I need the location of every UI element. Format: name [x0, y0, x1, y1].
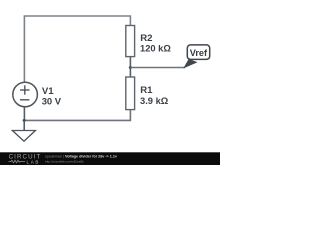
footer watermark bar	[0, 152, 220, 165]
resistor R2	[126, 26, 135, 57]
ground	[12, 120, 35, 141]
wire V1 bottom to ground junction	[23, 107, 25, 121]
resistor R1	[126, 77, 135, 110]
svg-text:120 kΩ: 120 kΩ	[140, 44, 171, 54]
junction node Vref	[129, 66, 132, 69]
junction ground node	[23, 119, 26, 122]
wire junction to Vref flag	[130, 67, 185, 69]
wire top rail from V1 top to R2 top	[24, 16, 130, 82]
svg-text:R1: R1	[140, 85, 153, 96]
svg-text:R2: R2	[140, 33, 152, 44]
wire R1 bottom to bottom rail	[24, 110, 130, 121]
voltage source V1	[13, 82, 38, 107]
svg-text:3.9 kΩ: 3.9 kΩ	[140, 96, 169, 106]
svg-text:speakman | Voltage divider for: speakman | Voltage divider for 28v -> 1.…	[45, 155, 118, 159]
svg-text:http://circuitlab.com/c62ea5b: http://circuitlab.com/c62ea5b	[45, 159, 84, 163]
flag Vref	[183, 45, 210, 69]
svg-text:30 V: 30 V	[42, 96, 62, 107]
svg-text:Vref: Vref	[190, 48, 208, 58]
wire R2 bottom to R1 top	[129, 57, 131, 78]
svg-text:LAB: LAB	[27, 159, 41, 164]
